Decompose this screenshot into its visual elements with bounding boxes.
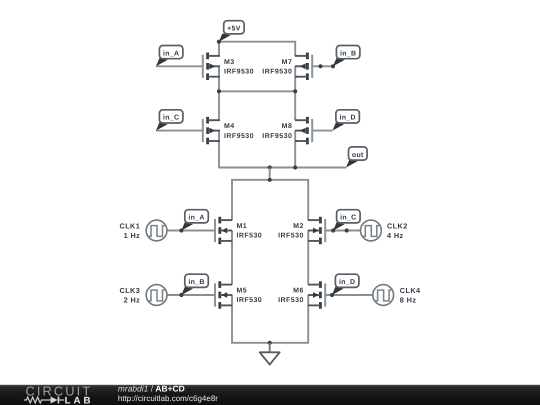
transistor M6 <box>308 281 326 308</box>
svg-text:CLK3: CLK3 <box>120 286 141 295</box>
wire M7 source to M8 drain <box>294 66 296 120</box>
junction in_D anchor row4 <box>330 293 334 297</box>
svg-text:M8: M8 <box>282 123 293 130</box>
wire in_C to M4 gate <box>156 130 203 132</box>
svg-text:in_C: in_C <box>340 214 356 222</box>
svg-text:IRF9530: IRF9530 <box>224 69 254 76</box>
flag in_C node (M2 gate) <box>333 210 360 231</box>
wire M2 gate to CLK2 <box>325 230 360 232</box>
svg-text:+5V: +5V <box>227 26 241 33</box>
logo diode <box>51 397 65 404</box>
svg-text:LAB: LAB <box>65 396 94 405</box>
wire M7 gate to in_B <box>312 65 333 67</box>
flag in_B node (M7 gate) <box>333 46 360 67</box>
flag in_B node (M5 gate) <box>181 274 208 295</box>
junction right mid rail <box>293 89 297 93</box>
label M5 <box>237 288 263 305</box>
junction +5V anchor <box>217 40 221 44</box>
svg-text:IRF9530: IRF9530 <box>262 69 292 76</box>
wire M6 gate to CLK4 <box>325 294 372 296</box>
label CLK4 8 Hz <box>400 286 421 305</box>
svg-text:8 Hz: 8 Hz <box>400 296 417 305</box>
svg-text:CLK1: CLK1 <box>120 221 141 230</box>
wire NMOS top rail <box>231 179 309 181</box>
ground <box>260 343 280 365</box>
wire +5V top rail <box>218 41 296 43</box>
flag +5V supply <box>219 21 244 42</box>
svg-text:IRF9530: IRF9530 <box>224 133 254 140</box>
svg-text:M6: M6 <box>293 288 304 295</box>
wire M2 source to M6 drain <box>307 231 309 285</box>
junction NMOS top rail <box>268 178 272 182</box>
flag in_D node (M6 gate) <box>332 274 359 295</box>
junction bottom rail <box>268 341 272 345</box>
junction in_C anchor row3 <box>331 228 335 232</box>
label M2 <box>278 223 304 240</box>
junction left mid rail <box>217 89 221 93</box>
svg-text:in_B: in_B <box>188 278 204 286</box>
wire CLK3 to M5 gate <box>167 294 215 296</box>
wire M8 gate to in_D <box>312 130 332 132</box>
label CLK1 1 Hz <box>120 221 141 240</box>
transistor M2 <box>308 217 326 244</box>
junction right out rail <box>293 165 297 169</box>
label CLK2 4 Hz <box>387 221 408 240</box>
svg-text:in_B: in_B <box>340 49 356 57</box>
svg-text:M4: M4 <box>224 123 235 130</box>
wire M7 drain to +5V rail <box>294 42 296 56</box>
svg-text:out: out <box>352 152 364 159</box>
svg-text:M7: M7 <box>282 59 293 66</box>
wire in_A to M3 gate <box>156 65 203 67</box>
wire M4 source down to out rail <box>218 131 220 168</box>
voltage source CLK1 square wave <box>146 220 167 241</box>
svg-text:in_D: in_D <box>339 278 355 286</box>
junction on M2 gate wire <box>345 228 349 232</box>
svg-text:IRF530: IRF530 <box>237 233 263 240</box>
label M3 <box>224 59 254 76</box>
junction in_A anchor row3 <box>179 228 183 232</box>
wire bottom rail <box>231 342 309 344</box>
transistor M3 <box>202 53 220 80</box>
svg-text:in_D: in_D <box>339 114 355 122</box>
svg-text:M3: M3 <box>224 59 235 66</box>
flag in_D node (M8 gate) <box>333 110 360 131</box>
svg-text:in_A: in_A <box>163 49 179 57</box>
label CLK3 2 Hz <box>120 286 141 305</box>
label M8 <box>262 123 292 140</box>
label M7 <box>262 59 292 76</box>
svg-text:M2: M2 <box>293 223 304 230</box>
svg-text:http://circuitlab.com/c6g4e8r: http://circuitlab.com/c6g4e8r <box>118 394 218 403</box>
svg-text:in_A: in_A <box>188 214 204 222</box>
wire out rail <box>218 167 346 169</box>
svg-text:M5: M5 <box>237 288 248 295</box>
junction on M7 gate wire <box>318 64 322 68</box>
wire centre connector <box>269 168 271 180</box>
flag in_C node (M4 gate) <box>156 110 183 131</box>
label M6 <box>278 288 304 305</box>
svg-text:2 Hz: 2 Hz <box>124 296 141 305</box>
svg-text:IRF530: IRF530 <box>278 233 304 240</box>
wire M6 source down <box>307 295 309 343</box>
label M1 <box>237 223 263 240</box>
svg-text:M1: M1 <box>237 223 248 230</box>
footer bar <box>0 385 540 405</box>
junction in_B anchor row4 <box>179 293 183 297</box>
voltage source CLK4 square wave <box>373 285 394 306</box>
wire M8 source down to out rail <box>294 131 296 168</box>
wire M3 drain to +5V rail <box>218 42 220 56</box>
svg-text:IRF9530: IRF9530 <box>262 133 292 140</box>
voltage source CLK2 square wave <box>361 220 382 241</box>
flag in_A node (M1 gate) <box>181 210 208 231</box>
transistor M7 <box>295 53 313 80</box>
junction in_B anchor <box>331 64 335 68</box>
wire M1 drain up <box>231 180 233 220</box>
wire M2 drain up <box>307 180 309 220</box>
transistor M4 <box>202 117 220 144</box>
transistor M8 <box>295 117 313 144</box>
svg-text:CLK2: CLK2 <box>387 221 408 230</box>
label M4 <box>224 123 254 140</box>
logo resistor zigzag <box>24 397 51 403</box>
junction centre out rail <box>268 165 272 169</box>
svg-text:1 Hz: 1 Hz <box>124 231 141 240</box>
svg-text:mrabdi1 / AB+CD: mrabdi1 / AB+CD <box>118 383 185 393</box>
svg-text:IRF530: IRF530 <box>237 297 263 304</box>
flag out node <box>346 147 367 168</box>
svg-text:CLK4: CLK4 <box>400 286 421 295</box>
wire CLK1 to M1 gate <box>167 230 215 232</box>
transistor M5 <box>214 281 232 308</box>
flag in_A node (M3 gate) <box>156 46 183 67</box>
svg-text:IRF530: IRF530 <box>278 297 304 304</box>
wire mid rail between PMOS rows <box>218 90 296 92</box>
transistor M1 <box>214 217 232 244</box>
svg-text:in_C: in_C <box>163 114 179 122</box>
wire M5 source down <box>231 295 233 343</box>
wire M3 source to M4 drain <box>218 66 220 120</box>
wire M1 source to M5 drain <box>231 231 233 285</box>
voltage source CLK3 square wave <box>146 285 167 306</box>
svg-text:4 Hz: 4 Hz <box>387 231 404 240</box>
